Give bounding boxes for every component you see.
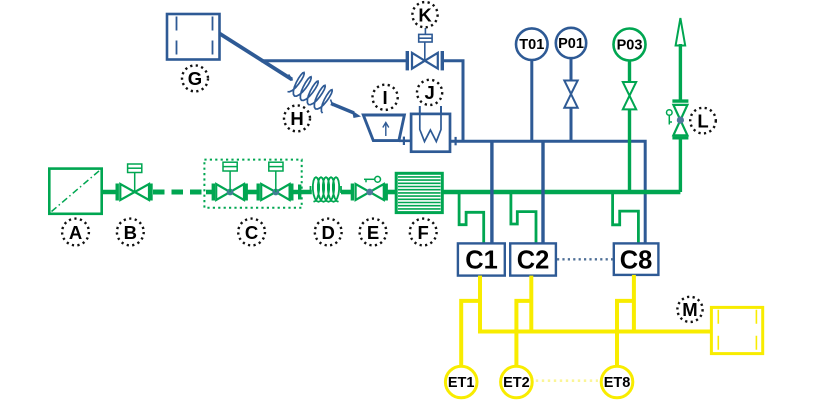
yellow drop C2 — [529, 276, 533, 332]
blue drop to C1 — [490, 141, 493, 243]
label E — [360, 219, 387, 246]
valve on P01 stem — [564, 81, 577, 108]
sifter J — [411, 106, 450, 152]
station C dotted enclosure — [204, 160, 301, 208]
label B — [117, 219, 144, 246]
valve L — [672, 101, 688, 138]
instrument P03 — [614, 29, 646, 61]
exhaust unit M — [711, 307, 762, 353]
label C — [238, 219, 265, 246]
svg-text:J: J — [424, 82, 434, 103]
svg-text:D: D — [322, 222, 335, 243]
dashed wire B to station C — [153, 190, 206, 195]
yellow drop C1 — [478, 276, 482, 332]
instrument ET1 — [445, 366, 477, 398]
svg-text:C1: C1 — [465, 247, 498, 275]
wire out of station C — [292, 185, 312, 200]
svg-text:E: E — [367, 222, 379, 243]
green hook to C2 — [511, 192, 536, 243]
arrow in funnel — [383, 123, 389, 137]
blue drop to C2 — [541, 141, 544, 243]
wire into station C — [206, 190, 214, 195]
svg-text:P03: P03 — [617, 37, 643, 53]
valve E — [352, 184, 386, 201]
valve K — [407, 28, 442, 70]
flexible coil D — [313, 177, 339, 202]
label M — [677, 297, 702, 322]
dotted link C2 to C8 — [557, 258, 613, 260]
wire E to filter F — [386, 190, 396, 195]
instrument stem P03 — [628, 61, 631, 193]
green hook to C8 — [613, 192, 639, 243]
label F — [410, 219, 437, 246]
wire between station C valves — [246, 190, 257, 195]
valve on P03 stem — [623, 82, 636, 109]
svg-text:B: B — [124, 222, 137, 243]
wire conveyor G to H — [220, 34, 293, 80]
yellow drop C8 — [632, 275, 636, 332]
filter F — [396, 173, 442, 212]
dotted link ET2 to ET8 — [536, 379, 598, 382]
label J — [417, 80, 442, 105]
valve C2 — [258, 162, 292, 200]
label L — [690, 108, 716, 134]
yellow manifold to M — [478, 330, 711, 334]
wire D to valve E — [341, 190, 353, 195]
coil H end ticks — [289, 75, 334, 107]
wire A to valve B — [102, 190, 118, 195]
vessel C2 — [510, 243, 556, 275]
key on valve E — [364, 176, 381, 182]
wire branch to valve K — [261, 59, 407, 62]
instrument T01 — [516, 28, 548, 60]
wire K to manifold elbow — [442, 61, 463, 142]
svg-text:C2: C2 — [517, 247, 550, 275]
valve B — [117, 164, 151, 201]
svg-text:A: A — [69, 222, 82, 243]
svg-text:I: I — [383, 87, 388, 108]
vessel C8 — [614, 243, 659, 275]
label D — [315, 219, 342, 246]
svg-text:C: C — [245, 222, 258, 243]
svg-text:F: F — [418, 222, 429, 243]
valve C1 — [213, 162, 246, 200]
label K — [412, 2, 437, 27]
label H — [284, 105, 310, 131]
label G — [182, 65, 208, 91]
svg-text:K: K — [418, 5, 432, 26]
yellow branch to ET8 — [617, 301, 634, 366]
green manifold — [442, 190, 680, 195]
svg-text:H: H — [290, 108, 303, 129]
svg-text:L: L — [697, 110, 708, 131]
vent line with arrow — [676, 18, 686, 192]
funnel I — [363, 115, 404, 141]
green hook to C1 — [459, 192, 484, 243]
wire sifter J outlet tick — [455, 137, 457, 145]
instrument ET8 — [601, 366, 633, 398]
blue manifold — [450, 141, 645, 243]
label A — [62, 219, 89, 246]
coil D end ticks — [311, 186, 342, 193]
instrument ET2 — [501, 366, 533, 398]
svg-text:G: G — [188, 68, 202, 89]
key on valve L — [667, 110, 673, 125]
feed bin A — [49, 169, 101, 214]
instrument stem P01 — [570, 58, 573, 141]
svg-text:ET1: ET1 — [448, 375, 475, 391]
instrument P01 — [556, 28, 586, 58]
hopper G — [167, 14, 220, 60]
yellow branch to ET1 — [461, 301, 480, 366]
flexible coil H — [288, 73, 333, 114]
svg-text:M: M — [682, 299, 697, 320]
svg-text:C8: C8 — [620, 247, 653, 275]
vessel C1 — [458, 243, 505, 275]
wire funnel to sifter J — [399, 137, 411, 145]
svg-text:ET2: ET2 — [503, 375, 530, 391]
wire H to funnel I — [331, 104, 361, 119]
svg-text:ET8: ET8 — [604, 375, 631, 391]
yellow branch to ET2 — [516, 301, 531, 366]
svg-text:T01: T01 — [519, 37, 544, 53]
label I — [373, 85, 398, 110]
svg-text:P01: P01 — [558, 36, 584, 52]
instrument stem T01 — [530, 60, 533, 141]
